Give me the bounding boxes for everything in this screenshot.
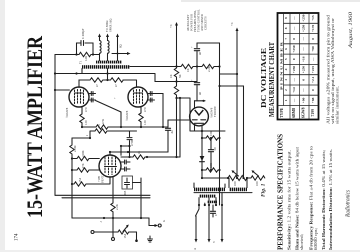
node	[175, 65, 177, 67]
terminal circle 2	[158, 224, 161, 227]
T2 core line	[194, 192, 252, 194]
svg-text:4: 4	[284, 68, 288, 70]
lead 3	[221, 205, 223, 239]
table grid verticals	[284, 13, 310, 120]
node	[140, 217, 142, 219]
svg-text:—: —	[301, 36, 305, 41]
V3 split grid bar	[192, 119, 205, 121]
svg-text:TYPE: TYPE	[280, 107, 284, 118]
V2 plate feed	[123, 80, 137, 87]
tap wire with arrow	[112, 53, 128, 55]
box wire	[133, 182, 142, 184]
node	[218, 137, 220, 139]
V2 cathode resistor	[139, 107, 143, 127]
node	[246, 177, 248, 179]
svg-text:—: —	[311, 57, 315, 62]
svg-text:7: 7	[284, 38, 288, 40]
V1 plate bar	[75, 92, 84, 94]
table frame	[278, 13, 319, 120]
svg-text:+250: +250	[292, 45, 296, 52]
V4 plate pin	[109, 152, 111, 155]
V3 top pin	[194, 101, 196, 109]
svg-text:470K: 470K	[130, 139, 134, 147]
svg-text:470: 470	[143, 107, 147, 112]
svg-text:Radiotronics: Radiotronics	[346, 189, 352, 217]
T1 primary winding bar	[82, 65, 130, 69]
node	[128, 145, 130, 147]
resistor horizontal top	[95, 129, 137, 133]
svg-text:47K: 47K	[101, 118, 105, 124]
svg-text:+: +	[113, 97, 117, 99]
filter cap C1	[194, 43, 199, 67]
T1 center tap	[107, 69, 109, 80]
svg-text:130: 130	[84, 120, 88, 125]
table grid horizontals	[278, 23, 319, 105]
V3 bottom wire	[190, 121, 225, 131]
wire	[91, 54, 100, 56]
svg-text:—: —	[301, 47, 305, 52]
svg-text:6: 6	[284, 48, 288, 50]
svg-text:7199: 7199	[311, 109, 315, 117]
input jack	[91, 231, 94, 234]
svg-text:8Ω: 8Ω	[119, 44, 123, 48]
svg-text:40: 40	[198, 92, 202, 96]
bottom pot row	[202, 177, 228, 179]
svg-text:—: —	[292, 78, 296, 83]
V3 cathode bar	[195, 122, 204, 124]
node	[140, 126, 142, 128]
aux power arrow	[236, 31, 238, 178]
node	[75, 72, 77, 74]
coupling cap C3	[165, 120, 170, 152]
input wire	[94, 231, 118, 233]
coupling line y127	[82, 125, 168, 129]
input tube V4	[99, 155, 121, 177]
top connector wire	[197, 42, 220, 44]
resistor h1	[72, 156, 99, 160]
svg-text:+2.1: +2.1	[311, 76, 315, 83]
T1 core bar	[96, 61, 122, 64]
node	[227, 177, 229, 179]
V3 plate chevron	[195, 110, 204, 115]
resistor chain on 66.5 rail	[181, 64, 220, 68]
AC lead 2	[208, 205, 210, 239]
node	[71, 157, 73, 159]
node	[109, 151, 111, 153]
node	[120, 126, 122, 128]
svg-text:470: 470	[84, 107, 88, 112]
svg-text:2: 2	[284, 89, 288, 91]
node B	[92, 53, 94, 55]
node	[112, 217, 114, 219]
svg-text:174: 174	[15, 233, 20, 241]
screen dropper resistor R scr	[176, 26, 178, 67]
V2 grid return wire	[155, 94, 164, 128]
svg-text:½6GW8: ½6GW8	[65, 107, 69, 118]
resistor y138	[202, 136, 220, 140]
T1 primary right end	[130, 66, 181, 68]
svg-text:5: 5	[284, 58, 288, 60]
ground dot	[136, 232, 138, 240]
svg-text:12K: 12K	[84, 55, 88, 61]
resistor h3	[72, 177, 110, 186]
node	[196, 65, 198, 67]
svg-text:0: 0	[311, 89, 315, 91]
svg-text:+170: +170	[311, 25, 315, 32]
node	[204, 204, 206, 206]
V3 cathode vertical	[201, 131, 203, 178]
svg-text:0: 0	[311, 38, 315, 40]
arrow down 3	[221, 239, 224, 243]
svg-text:+: +	[190, 79, 194, 81]
transformer T1 secondary coil 1	[100, 41, 102, 61]
svg-text:+90: +90	[301, 97, 305, 103]
svg-text:similar instrument.: similar instrument.	[335, 86, 340, 124]
svg-text:½6GW8: ½6GW8	[125, 110, 129, 121]
svg-text:15K: 15K	[209, 130, 213, 136]
node	[146, 156, 148, 158]
V1 pin caps	[89, 92, 96, 96]
svg-text:August, 1960: August, 1960	[348, 12, 354, 50]
svg-text:0: 0	[292, 38, 296, 40]
svg-text:60000 cps;: 60000 cps;	[313, 228, 318, 250]
svg-text:C: C	[214, 214, 218, 216]
svg-text:220K: 220K	[81, 150, 85, 158]
junction row	[199, 193, 222, 205]
speaker lead arrow 3	[117, 37, 119, 61]
pot 1	[228, 176, 247, 181]
plate resistor B	[108, 78, 124, 82]
V2 plate bar	[134, 92, 143, 94]
node ct	[106, 72, 108, 74]
node	[175, 156, 177, 158]
svg-text:+C: +C	[230, 22, 234, 26]
switch S1	[196, 205, 200, 239]
vertical x180	[179, 98, 181, 157]
node	[201, 137, 203, 139]
resistor R-fb	[79, 52, 91, 56]
svg-text:shorted;: shorted;	[299, 234, 304, 250]
V2 pin caps	[148, 92, 155, 96]
V1 grids	[75, 90, 84, 105]
svg-text:+90: +90	[311, 46, 315, 52]
node	[198, 204, 200, 206]
svg-text:—: —	[292, 98, 296, 103]
pot2 wiper	[253, 172, 259, 177]
node	[54, 89, 56, 91]
svg-text:50: 50	[213, 147, 217, 151]
arrow down 1	[195, 239, 198, 243]
svg-text:47K: 47K	[81, 163, 85, 169]
power transformer T2 winding 1	[194, 188, 225, 192]
svg-text:+225: +225	[311, 66, 315, 73]
volume pot	[118, 230, 137, 234]
node	[175, 97, 177, 99]
wire bottom of RC loop	[55, 54, 79, 56]
svg-text:Fig. 1: Fig. 1	[261, 183, 267, 197]
svg-text:3: 3	[284, 79, 288, 81]
pot wiper arrow	[123, 226, 128, 232]
node	[210, 169, 212, 171]
svg-text:.02: .02	[170, 130, 174, 134]
arrow down 2	[208, 239, 211, 243]
node	[218, 169, 220, 171]
svg-text:+250: +250	[301, 25, 305, 32]
svg-text:100: 100	[255, 181, 259, 186]
B+ rail	[55, 74, 155, 82]
grid line to V3	[168, 119, 190, 121]
heater rails	[55, 194, 150, 196]
svg-text:TRIODE: TRIODE	[213, 106, 217, 117]
screened cap box	[122, 176, 133, 189]
svg-text:+C: +C	[169, 24, 173, 28]
V4 grids	[105, 157, 116, 175]
svg-text:—: —	[301, 88, 305, 93]
right vertical	[243, 86, 245, 178]
table cell text	[280, 14, 315, 118]
transformer T1 secondary coil 2	[108, 41, 110, 61]
small winding	[207, 201, 217, 204]
feedback resistor y157	[121, 155, 180, 159]
V4 top-right wire	[121, 145, 130, 147]
resistor h2	[72, 168, 99, 172]
cathode lower vertical	[112, 218, 114, 237]
node ct2	[106, 79, 108, 81]
cap across heater	[210, 205, 215, 217]
svg-text:PENT.: PENT.	[101, 175, 105, 183]
vertical x176 lower run	[176, 98, 178, 157]
node	[127, 151, 129, 153]
node	[201, 177, 203, 179]
feedback wire left vertical	[54, 55, 56, 196]
svg-text:+250: +250	[301, 66, 305, 73]
plate resistor A	[90, 78, 108, 82]
V4 right pins	[121, 160, 130, 171]
svg-text:47: 47	[95, 84, 99, 88]
label	[103, 217, 105, 219]
svg-text:SPKR 16Ω: SPKR 16Ω	[109, 18, 113, 32]
svg-text:40: 40	[198, 52, 202, 56]
capacitor C-fb loop	[77, 41, 94, 55]
filter cap C2	[194, 67, 199, 101]
svg-text:—: —	[292, 16, 296, 21]
svg-text:0: 0	[292, 58, 296, 60]
svg-text:PERFORMANCE SPECIFICATIONS: PERFORMANCE SPECIFICATIONS	[276, 134, 285, 250]
svg-text:1: 1	[284, 99, 288, 101]
V1 cathode resistor	[80, 107, 84, 127]
svg-text:100: 100	[233, 181, 237, 186]
svg-text:47: 47	[114, 84, 118, 88]
svg-text:+88: +88	[311, 97, 315, 103]
node	[236, 73, 238, 75]
node	[218, 65, 220, 67]
svg-text:9: 9	[284, 17, 288, 19]
svg-text:15K: 15K	[209, 162, 213, 168]
svg-text:2.2K: 2.2K	[207, 65, 211, 72]
node	[71, 169, 73, 171]
node A	[75, 53, 77, 55]
svg-text:6BM8: 6BM8	[292, 108, 296, 118]
svg-text:+250: +250	[301, 14, 305, 21]
node	[128, 156, 130, 158]
svg-text:+16: +16	[301, 56, 305, 62]
node	[236, 177, 238, 179]
svg-text:Sensitivity: 1.2 volts rms for: Sensitivity: 1.2 volts rms for 15 watts …	[287, 150, 292, 250]
heater winding	[199, 195, 216, 198]
V3 top wire	[195, 100, 206, 102]
svg-text:8: 8	[284, 27, 288, 29]
svg-text:.005: .005	[123, 190, 127, 196]
node	[179, 97, 181, 99]
node	[71, 183, 73, 185]
svg-text:Total Harmonic Distortion: 0.4: Total Harmonic Distortion: 0.4% at 15 wa…	[321, 150, 326, 250]
coupling line y152	[110, 151, 168, 153]
node	[221, 204, 223, 206]
aux arrow up	[175, 22, 178, 26]
svg-text:+: +	[190, 46, 194, 48]
T2 winding 2	[229, 188, 247, 192]
cap mid	[208, 138, 213, 170]
pot 2	[247, 176, 265, 180]
V4 cathode	[111, 177, 115, 218]
wire top	[72, 131, 95, 138]
V4 plate bar	[105, 166, 117, 168]
node	[54, 72, 56, 74]
left vertical x72	[70, 138, 74, 218]
V2 grids	[134, 90, 143, 105]
svg-text:2.2M: 2.2M	[73, 145, 77, 152]
node tap	[117, 53, 119, 55]
node	[242, 177, 244, 179]
svg-text:0.5: 0.5	[97, 124, 101, 128]
resistor vertical x176 upper	[174, 67, 178, 82]
speaker lead arrow 2	[107, 37, 109, 41]
svg-text:+14: +14	[292, 87, 296, 93]
svg-text:1M: 1M	[78, 178, 82, 183]
svg-text:P I N N U M B E R: P I N N U M B E R	[280, 41, 284, 90]
scan shadow edges	[0, 0, 5, 252]
svg-text:2.2K: 2.2K	[115, 203, 119, 210]
terminal circle	[112, 238, 115, 241]
node	[218, 85, 220, 87]
svg-text:Intermodulation Distortion: 1.: Intermodulation Distortion: 1.5% at 15 w…	[328, 149, 333, 250]
svg-text:+15: +15	[311, 15, 315, 21]
wire B+ to aux	[220, 73, 238, 75]
svg-text:C 680pF: C 680pF	[81, 28, 85, 39]
diode thermistor	[200, 156, 205, 161]
node	[215, 204, 217, 206]
node	[210, 137, 212, 139]
node	[201, 130, 203, 132]
V3 bottom stubs	[195, 124, 203, 131]
grid bottom line	[72, 217, 149, 219]
arrow to terminal	[155, 224, 159, 227]
vertical to grid line	[140, 178, 142, 218]
node	[175, 80, 177, 82]
V1 grid wire	[55, 89, 69, 91]
node	[202, 100, 204, 102]
T2 connections	[194, 178, 247, 188]
cap branch x129.5	[127, 131, 132, 157]
wire y86	[220, 85, 244, 87]
output tube V2	[128, 87, 148, 107]
svg-text:0: 0	[301, 79, 305, 81]
diagonal wire	[96, 101, 122, 128]
cap inside box	[125, 178, 130, 188]
node J	[89, 137, 91, 139]
resistor y170	[202, 168, 220, 172]
V1 plate feed	[79, 80, 90, 87]
svg-text:130: 130	[143, 120, 147, 125]
node	[201, 169, 203, 171]
phase splitter V3	[190, 107, 209, 126]
node	[208, 204, 210, 206]
speaker lead arrow 1	[99, 37, 101, 41]
wire y98	[177, 98, 191, 121]
svg-text:MEASUREMENT CHART: MEASUREMENT CHART	[267, 42, 276, 117]
node	[81, 126, 83, 128]
resistor vertical x176 lower	[174, 82, 178, 99]
svg-text:T1: T1	[79, 60, 83, 64]
svg-text:6GW8: 6GW8	[301, 107, 305, 118]
chassis ground	[148, 236, 153, 242]
svg-text:+250: +250	[292, 66, 296, 73]
svg-text:CIRCUITS: CIRCUITS	[204, 16, 208, 30]
svg-text:1M: 1M	[123, 234, 127, 239]
node	[162, 126, 164, 128]
main HT vertical	[219, 43, 221, 205]
svg-text:15-WATT AMPLIFIER: 15-WATT AMPLIFIER	[22, 35, 47, 218]
T1 primary left end down	[81, 69, 83, 74]
svg-text:—: —	[292, 26, 296, 31]
wire y82	[155, 81, 197, 83]
output tube V1	[69, 87, 89, 107]
grid stopper to terminal	[149, 218, 156, 226]
node	[120, 145, 122, 147]
pot1 wiper	[233, 172, 239, 177]
